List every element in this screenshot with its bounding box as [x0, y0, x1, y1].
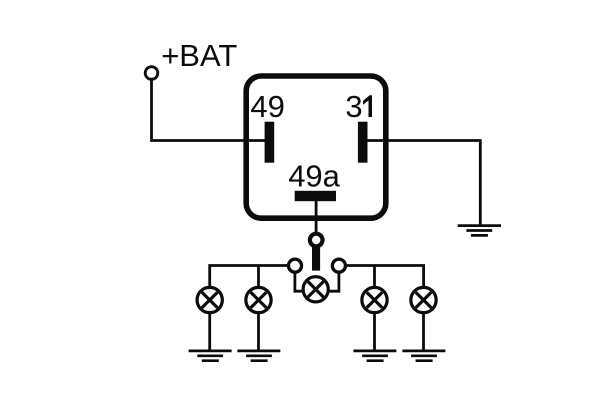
switch S1 right contact: [332, 259, 345, 272]
svg-text:49a: 49a: [288, 158, 340, 193]
lamp E4: [362, 287, 387, 312]
wire from +BAT down: [150, 79, 153, 139]
switch S1 left contact: [288, 259, 301, 272]
switch S1 pivot circle: [310, 234, 323, 247]
ground G1 (pin 31): [458, 226, 501, 236]
wire from +BAT to pin 49: [150, 139, 265, 142]
wire left bus: [210, 266, 289, 287]
wire lamp 2 to ground: [257, 314, 260, 350]
lamp E5: [411, 287, 436, 312]
svg-text:3: 3: [345, 89, 362, 124]
lamp E1: [197, 287, 222, 312]
svg-text:+BAT: +BAT: [161, 38, 237, 73]
lamp E3 (center, on switch): [303, 277, 328, 302]
lamp E2: [246, 287, 271, 312]
ground G4: [353, 351, 396, 361]
wire lamp 1 to ground: [208, 314, 211, 350]
wire lamp 5 to ground: [422, 314, 425, 350]
ground G2: [189, 351, 232, 361]
wire branch to lamp 2: [257, 266, 260, 287]
relay K1 (flasher unit): [246, 76, 386, 218]
wire left elbow to center lamp: [295, 272, 303, 292]
terminal +BAT: [145, 67, 158, 80]
pin 49a terminal bar: [295, 191, 336, 201]
pin 31 terminal bar: [358, 122, 368, 163]
wire from pin 31 to ground: [367, 141, 480, 225]
ground G5: [402, 351, 445, 361]
wire right bus: [346, 266, 424, 287]
wire lamp 4 to ground: [373, 314, 376, 350]
svg-text:49: 49: [250, 89, 284, 124]
ground G3: [237, 351, 280, 361]
switch S1 lever: [312, 246, 320, 271]
wire right elbow to center lamp: [329, 272, 339, 292]
pin 49 terminal bar: [265, 122, 275, 163]
wire branch to lamp 4: [373, 266, 376, 287]
wire from 49a down to pivot: [315, 201, 318, 233]
